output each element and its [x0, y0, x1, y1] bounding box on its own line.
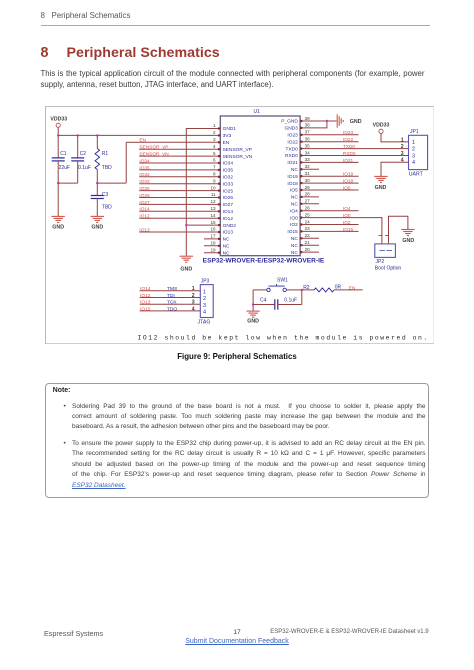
svg-text:GND: GND — [247, 319, 259, 325]
svg-text:IO12: IO12 — [223, 216, 234, 222]
svg-text:U1: U1 — [254, 109, 261, 115]
svg-text:IO14: IO14 — [140, 286, 151, 292]
svg-text:IO35: IO35 — [223, 168, 234, 174]
svg-text:NC: NC — [291, 243, 298, 249]
svg-text:28: 28 — [305, 192, 311, 197]
svg-text:19: 19 — [210, 247, 216, 252]
svg-text:13: 13 — [210, 206, 216, 211]
svg-text:27: 27 — [305, 199, 311, 204]
svg-text:IO4: IO4 — [343, 206, 351, 212]
svg-text:NC: NC — [291, 250, 298, 256]
svg-text:JP3: JP3 — [201, 279, 210, 285]
svg-text:2: 2 — [213, 130, 216, 135]
svg-text:IO15: IO15 — [140, 306, 151, 312]
svg-text:3: 3 — [213, 137, 216, 142]
svg-text:2: 2 — [412, 147, 415, 153]
svg-text:IO5: IO5 — [290, 188, 298, 194]
svg-text:C3: C3 — [102, 192, 109, 198]
svg-text:JP1: JP1 — [410, 129, 419, 135]
svg-text:EN: EN — [223, 140, 230, 146]
svg-text:36: 36 — [305, 137, 311, 142]
svg-text:IO34: IO34 — [139, 158, 150, 164]
svg-text:IO12: IO12 — [139, 214, 150, 220]
svg-text:16: 16 — [210, 227, 216, 232]
svg-text:IO15: IO15 — [343, 227, 354, 233]
svg-text:IO32: IO32 — [223, 175, 234, 181]
svg-text:IO12 should be kept low when t: IO12 should be kept low when the module … — [138, 334, 429, 341]
svg-text:NC: NC — [291, 195, 298, 201]
svg-text:21: 21 — [305, 240, 311, 245]
svg-text:3: 3 — [203, 303, 206, 309]
svg-text:22: 22 — [305, 233, 311, 238]
svg-text:VDD33: VDD33 — [50, 116, 67, 122]
svg-text:IO27: IO27 — [139, 200, 150, 206]
svg-text:SENSOR_VP: SENSOR_VP — [139, 145, 168, 151]
svg-text:26: 26 — [305, 206, 311, 211]
svg-text:NC: NC — [223, 250, 230, 256]
svg-text:IO33: IO33 — [139, 179, 150, 185]
svg-text:IO21: IO21 — [343, 158, 354, 164]
svg-text:34: 34 — [305, 150, 311, 155]
svg-text:ESP32-WROVER-E/ESP32-WROVER-IE: ESP32-WROVER-E/ESP32-WROVER-IE — [203, 257, 325, 264]
svg-text:17: 17 — [210, 234, 216, 239]
svg-text:3: 3 — [412, 153, 415, 159]
svg-text:C4: C4 — [260, 297, 267, 303]
svg-text:IO19: IO19 — [343, 172, 354, 178]
svg-text:GND: GND — [375, 185, 387, 191]
svg-text:R2: R2 — [303, 285, 310, 291]
svg-text:1: 1 — [412, 140, 415, 146]
svg-text:GND2: GND2 — [223, 223, 237, 229]
svg-text:0R: 0R — [335, 285, 342, 291]
svg-text:4: 4 — [203, 310, 206, 316]
svg-text:SENSOR_VN: SENSOR_VN — [139, 152, 169, 158]
svg-text:20: 20 — [305, 247, 311, 252]
svg-text:1: 1 — [203, 289, 206, 295]
svg-text:IO32: IO32 — [139, 172, 150, 178]
svg-text:C1: C1 — [60, 151, 67, 157]
svg-text:10: 10 — [210, 185, 216, 190]
svg-text:IO13: IO13 — [140, 300, 151, 306]
svg-text:TXD0: TXD0 — [286, 146, 299, 152]
svg-text:SENSOR_VN: SENSOR_VN — [223, 154, 253, 160]
svg-text:IO0: IO0 — [290, 215, 298, 221]
svg-text:1: 1 — [213, 123, 216, 128]
svg-text:IO18: IO18 — [287, 181, 298, 187]
svg-text:IO26: IO26 — [139, 193, 150, 199]
svg-text:IO23: IO23 — [343, 130, 354, 136]
svg-text:IO21: IO21 — [287, 160, 298, 166]
svg-text:9: 9 — [213, 178, 216, 183]
svg-text:4: 4 — [401, 158, 404, 164]
svg-text:RXD0: RXD0 — [343, 151, 356, 157]
svg-text:NC: NC — [291, 236, 298, 242]
svg-text:32: 32 — [305, 164, 311, 169]
svg-text:IO14: IO14 — [139, 207, 150, 213]
svg-text:24: 24 — [305, 219, 311, 224]
svg-text:4: 4 — [192, 306, 195, 312]
svg-text:14: 14 — [210, 213, 216, 218]
svg-text:6: 6 — [213, 158, 216, 163]
svg-text:IO33: IO33 — [223, 181, 234, 187]
svg-text:4: 4 — [213, 144, 216, 149]
svg-text:IO23: IO23 — [287, 133, 298, 139]
svg-text:18: 18 — [210, 241, 216, 246]
svg-text:NC: NC — [291, 167, 298, 173]
svg-text:EN: EN — [139, 138, 146, 144]
svg-text:IO5: IO5 — [343, 185, 351, 191]
svg-text:4: 4 — [412, 160, 415, 166]
svg-text:33: 33 — [305, 157, 311, 162]
svg-text:IO12: IO12 — [140, 293, 151, 299]
svg-text:37: 37 — [305, 130, 311, 135]
svg-text:25: 25 — [305, 212, 311, 217]
svg-text:IO18: IO18 — [343, 179, 354, 185]
svg-text:P_GND: P_GND — [281, 119, 298, 125]
svg-text:1: 1 — [192, 286, 195, 292]
svg-text:GND: GND — [91, 224, 103, 230]
svg-text:31: 31 — [305, 171, 311, 176]
svg-text:IO13: IO13 — [139, 227, 150, 233]
svg-text:SENSOR_VP: SENSOR_VP — [223, 147, 252, 153]
svg-text:TBD: TBD — [102, 205, 112, 211]
svg-text:UART: UART — [409, 171, 424, 177]
svg-text:Boot Option: Boot Option — [375, 265, 402, 271]
svg-text:SW1: SW1 — [277, 277, 288, 283]
svg-text:GND3: GND3 — [284, 126, 298, 132]
svg-text:TBD: TBD — [102, 165, 112, 171]
svg-text:35: 35 — [305, 143, 311, 148]
svg-text:5: 5 — [213, 151, 216, 156]
svg-text:29: 29 — [305, 185, 311, 190]
svg-text:IO35: IO35 — [139, 165, 150, 171]
svg-text:JTAG: JTAG — [198, 320, 211, 326]
svg-text:2: 2 — [192, 293, 195, 299]
svg-text:GND: GND — [180, 267, 192, 273]
svg-text:GND: GND — [350, 119, 362, 125]
svg-text:GND: GND — [52, 224, 64, 230]
svg-text:IO14: IO14 — [223, 209, 234, 215]
svg-text:NC: NC — [223, 237, 230, 243]
svg-text:3: 3 — [401, 151, 404, 157]
svg-text:IO0: IO0 — [343, 213, 351, 219]
svg-text:R1: R1 — [102, 151, 109, 157]
svg-text:IO15: IO15 — [287, 229, 298, 235]
svg-text:RXD0: RXD0 — [285, 153, 298, 159]
svg-text:TMS: TMS — [167, 286, 178, 292]
svg-text:C2: C2 — [80, 151, 87, 157]
svg-text:IO22: IO22 — [287, 139, 298, 145]
svg-text:IO2: IO2 — [290, 222, 298, 228]
svg-text:NC: NC — [223, 244, 230, 250]
svg-text:TDI: TDI — [167, 293, 175, 299]
svg-text:3: 3 — [192, 300, 195, 306]
svg-text:23: 23 — [305, 226, 311, 231]
svg-text:11: 11 — [211, 192, 216, 197]
svg-text:IO19: IO19 — [287, 174, 298, 180]
svg-text:39: 39 — [305, 116, 311, 121]
svg-text:7: 7 — [213, 165, 216, 170]
svg-text:15: 15 — [210, 220, 216, 225]
svg-text:3V3: 3V3 — [223, 133, 232, 139]
svg-text:VDD33: VDD33 — [373, 122, 390, 128]
svg-text:8: 8 — [213, 172, 216, 177]
svg-text:IO13: IO13 — [223, 230, 234, 236]
svg-text:JP2: JP2 — [376, 259, 385, 265]
svg-text:IO22: IO22 — [343, 137, 354, 143]
svg-text:2: 2 — [401, 144, 404, 150]
svg-text:NC: NC — [291, 202, 298, 208]
svg-text:0.1uF: 0.1uF — [284, 297, 297, 303]
svg-text:30: 30 — [305, 178, 311, 183]
svg-text:TXD0: TXD0 — [343, 144, 356, 150]
svg-text:IO27: IO27 — [223, 202, 234, 208]
svg-text:IO25: IO25 — [223, 188, 234, 194]
svg-text:IO34: IO34 — [223, 161, 234, 167]
svg-text:GND1: GND1 — [223, 126, 237, 132]
svg-text:2: 2 — [203, 296, 206, 302]
svg-text:38: 38 — [305, 123, 311, 128]
svg-text:IO2: IO2 — [343, 220, 351, 226]
svg-text:0.1uF: 0.1uF — [78, 165, 91, 171]
svg-text:TCK: TCK — [167, 300, 178, 306]
svg-text:1: 1 — [401, 137, 404, 143]
svg-text:IO26: IO26 — [223, 195, 234, 201]
svg-text:12: 12 — [210, 199, 216, 204]
svg-text:EN: EN — [349, 285, 356, 291]
svg-text:IO25: IO25 — [139, 186, 150, 192]
svg-text:IO4: IO4 — [290, 208, 298, 214]
svg-text:22uF: 22uF — [59, 165, 70, 171]
svg-text:TDO: TDO — [167, 306, 178, 312]
svg-text:GND: GND — [402, 238, 414, 244]
